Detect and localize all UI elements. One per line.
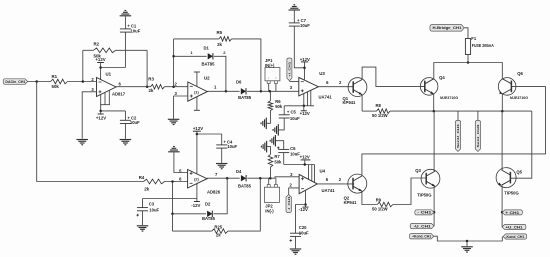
wire R3 to U2 pin2 (165, 86, 188, 88)
svg-text:DACin_CH1: DACin_CH1 (5, 80, 25, 84)
wire R2 left riser (82, 50, 84, 81)
port -U_CH1 left (410, 223, 434, 228)
svg-text:50k: 50k (274, 159, 282, 164)
ground below C3 (137, 225, 149, 227)
wire port to fuse (464, 28, 468, 39)
svg-text:TIP50G: TIP50G (417, 193, 431, 198)
port DACin_CH1 (3, 79, 28, 85)
wire Kond to ground rail (434, 236, 503, 241)
capacitor C6 (275, 141, 283, 150)
port SenU_CH1 vertical (457, 111, 459, 120)
resistor R8 (377, 109, 391, 114)
svg-text:AD826: AD826 (207, 189, 221, 194)
svg-text:(1): (1) (194, 90, 199, 94)
svg-text:2k: 2k (216, 233, 221, 238)
svg-text:R3: R3 (148, 77, 154, 82)
wire riser to Q5 base (510, 111, 531, 178)
svg-text:SenU_CH1: SenU_CH1 (456, 123, 460, 148)
wire minus bus U2 (173, 39, 175, 87)
svg-text:+12V: +12V (300, 155, 310, 160)
resistor R4 (144, 179, 165, 184)
resistor R6 (269, 91, 271, 101)
wire D2 to output node (213, 178, 227, 214)
svg-text:R7: R7 (274, 154, 280, 159)
wire Q6 emitter to rail (501, 94, 503, 111)
wire R7 to ground (267, 147, 271, 155)
wire R6 to ground (266, 111, 270, 124)
svg-text:-I_CH1: -I_CH1 (287, 196, 291, 210)
diode D4 BAT85 (241, 175, 246, 181)
connector JP2 IN(-) (264, 187, 279, 202)
op-amp U2B AD826 section 2 (188, 170, 207, 189)
capacitor C4 (221, 134, 223, 145)
wire emitter rail left (362, 110, 376, 112)
svg-text:R5: R5 (217, 30, 223, 35)
transistor Q1 KP941 (348, 78, 367, 97)
connector JP1 IN(+) (265, 68, 280, 81)
svg-text:IN(+): IN(+) (265, 63, 275, 68)
ground U2 pin3 (168, 118, 180, 120)
ground left of C6 (274, 135, 276, 147)
capacitor C7 (293, 11, 295, 23)
svg-text:-U_CH1: -U_CH1 (414, 224, 431, 228)
wire Q4 emitter to rail (433, 94, 435, 111)
svg-text:BAT85: BAT85 (238, 95, 252, 100)
resistor R2 (83, 49, 94, 51)
resistor R3 (151, 84, 165, 89)
ground below C2 (120, 139, 131, 141)
wire R5 to output node (232, 39, 261, 91)
power stub U2 bottom (196, 97, 198, 111)
svg-text:10uF: 10uF (299, 231, 309, 236)
svg-text:+Kond_CH1: +Kond_CH1 (412, 235, 431, 239)
wire Q3 emitter down (433, 186, 435, 226)
diode D6 BAT85 (241, 88, 246, 94)
wire Q5 emitter down (501, 185, 503, 227)
wire JP1 pins down (268, 84, 270, 92)
resistor R7 (270, 167, 272, 178)
power pins U3 bottom (303, 94, 305, 106)
ground below C4 (216, 163, 228, 165)
ground U1 pin3 (76, 139, 88, 141)
svg-text:Q6: Q6 (517, 71, 523, 76)
power stub U4 bottom -12V (305, 190, 307, 205)
capacitor C5 (283, 106, 285, 115)
svg-text:+ C5: + C5 (287, 109, 297, 114)
svg-text:-Kond_CH1: -Kond_CH1 (505, 235, 524, 239)
resistor R25 (172, 214, 174, 231)
transistor Q2 KP941 (348, 174, 367, 193)
ground left of R7 (266, 141, 268, 153)
wire Q5 collector up to rail (501, 111, 503, 170)
port H-Bridge_CH1 (430, 25, 464, 32)
op-amp U4 UA741 (299, 174, 317, 193)
svg-text:SenI_CH1: SenI_CH1 (476, 124, 480, 148)
port -I_CH1 vertical (286, 195, 291, 213)
svg-text:+ CH1: + CH1 (505, 211, 519, 215)
port +Kond_CH1 left (409, 234, 433, 239)
wire to C5 (284, 105, 304, 107)
svg-text:IN(-): IN(-) (265, 208, 274, 213)
svg-text:U2: U2 (204, 76, 210, 81)
wire minus node down (172, 182, 174, 214)
port -_CH1 left (415, 210, 434, 215)
svg-text:+12V: +12V (95, 57, 105, 62)
svg-text:R9: R9 (376, 198, 382, 203)
svg-text:BAT85: BAT85 (202, 216, 216, 221)
svg-text:50 1/2W: 50 1/2W (372, 207, 388, 212)
wire D1 to output row (214, 56, 226, 91)
port +U_CH1 right (502, 224, 526, 229)
node A junction (35, 80, 38, 83)
port SenI_CH1 vertical (477, 111, 479, 120)
svg-text:R4: R4 (139, 175, 145, 180)
svg-text:10uF: 10uF (300, 23, 310, 28)
svg-text:H-Bridge_CH1: H-Bridge_CH1 (433, 26, 462, 30)
wire DACin to R1 (28, 81, 51, 83)
svg-text:2k: 2k (149, 88, 154, 93)
wire node A to R4 (37, 82, 144, 182)
svg-text:D4: D4 (236, 169, 242, 174)
svg-text:AD817: AD817 (112, 92, 126, 97)
wire R2 to output riser (116, 49, 148, 51)
svg-text:50k: 50k (52, 84, 60, 89)
wire JP2 pins up (268, 178, 270, 184)
op-amp U1 AD817 (97, 78, 117, 97)
svg-text:-12V: -12V (191, 203, 200, 208)
svg-text:R1: R1 (52, 74, 58, 79)
svg-text:BAT85: BAT85 (238, 184, 252, 189)
wire supply node to Q4 Q6 collectors (467, 61, 470, 64)
svg-text:U1: U1 (106, 72, 112, 77)
svg-text:10uF: 10uF (131, 28, 141, 33)
wire U2B pin5 to ground (174, 153, 188, 173)
svg-text:MJE3710G: MJE3710G (440, 95, 458, 100)
svg-text:TIP50G: TIP50G (504, 190, 518, 195)
wire U2 output (207, 90, 239, 92)
svg-text:MJE3710G: MJE3710G (510, 95, 528, 100)
wire rail to Q5 base riser (390, 110, 532, 112)
transistor Q5 TIP50G (496, 168, 516, 188)
wire Q6 base to riser (511, 85, 545, 87)
power +12V U1 pin7 (100, 68, 102, 80)
port -Kond_CH1 right (503, 234, 527, 239)
resistor R9 (377, 202, 393, 207)
ground below C20 (290, 248, 302, 250)
wire R1 to U1 pin2 (68, 81, 97, 83)
svg-text:Q3: Q3 (415, 168, 421, 173)
svg-text:D2: D2 (205, 201, 211, 206)
svg-text:UA741: UA741 (322, 188, 336, 193)
wire C7 to U3 pin7 (294, 26, 304, 79)
svg-text:50k: 50k (275, 104, 283, 109)
transistor Q4 MJE3710G (420, 78, 438, 96)
svg-text:(2): (2) (194, 178, 199, 182)
op-amp U3 UA741 (299, 77, 319, 96)
wire D4 to U4 pin3 (247, 177, 299, 178)
wire C5 to ground (278, 118, 284, 130)
svg-text:R8: R8 (376, 103, 382, 108)
wire U2B output (207, 177, 240, 179)
svg-text:C20: C20 (299, 225, 307, 230)
svg-text:BAT85: BAT85 (202, 61, 216, 66)
svg-text:+U_CH1: +U_CH1 (506, 225, 523, 229)
svg-text:C6: C6 (290, 146, 296, 151)
wire Q1 emitter to rail (361, 95, 363, 111)
capacitor C3 (142, 199, 144, 208)
wire +12V to C4 (197, 133, 222, 135)
svg-text:10uF: 10uF (227, 144, 237, 149)
wire Q2 collector riser (362, 86, 546, 176)
ground above U2B pin5 (168, 151, 180, 153)
ground bottom rail (466, 241, 468, 246)
diode D2 BAT85 (173, 213, 207, 215)
wire port to U3 pin2 (289, 80, 298, 82)
svg-text:10uF: 10uF (149, 208, 159, 213)
wire -12V to C3 (143, 198, 197, 200)
port + CH1 right (502, 210, 522, 215)
capacitor C20 (290, 232, 301, 234)
power riser U2B +12V (196, 134, 198, 174)
wire Q1 collector to Q4 base (362, 67, 425, 86)
wire U2 pin3 ground (174, 96, 188, 119)
svg-text:2k: 2k (217, 42, 222, 47)
fuse F1 FUSE 200mA (467, 39, 469, 63)
capacitor C2 (124, 111, 126, 120)
svg-text:D6: D6 (236, 80, 242, 85)
op-amp U2 AD826 section 1 (188, 82, 208, 101)
wire R9 to Q3 base (393, 178, 427, 205)
wire D6 to U3 pin3 (247, 90, 299, 92)
wire U3 output to Q1 base (318, 86, 353, 88)
svg-text:Q4: Q4 (439, 75, 445, 80)
resistor R1 (51, 79, 68, 84)
wire Q3 collector up to rail (433, 111, 435, 171)
diode D1 BAT85 (174, 55, 207, 57)
svg-text:50 1/2W: 50 1/2W (372, 113, 388, 118)
ground left of R6 (265, 118, 267, 130)
wire +12V to C1 (101, 67, 126, 69)
wire port to U4 pin2 (289, 188, 299, 195)
svg-text:+I_CH1: +I_CH1 (288, 61, 292, 76)
ground above C7 (289, 9, 301, 11)
power U1 bottom pins (100, 95, 102, 111)
wire to C2 (101, 110, 126, 112)
svg-text:U4: U4 (320, 168, 326, 173)
svg-text:+12V: +12V (96, 115, 106, 120)
svg-text:+12V: +12V (300, 111, 310, 116)
ground left of C5 (277, 124, 279, 135)
svg-text:2k: 2k (144, 187, 149, 192)
wire R4 to pin6 of U2B (165, 181, 188, 183)
svg-text:R2: R2 (94, 42, 100, 47)
svg-text:KP941: KP941 (344, 200, 357, 205)
svg-text:10uF: 10uF (130, 120, 140, 125)
capacitor C1 (124, 32, 126, 67)
svg-text:10uF: 10uF (290, 116, 300, 121)
resistor R5 (174, 38, 219, 40)
wire U1 output (116, 86, 151, 88)
wire U4 output to Q2 base (317, 183, 354, 185)
transistor Q3 TIP50G (421, 169, 440, 188)
svg-text:+12V: +12V (300, 57, 310, 62)
svg-text:KP941: KP941 (343, 100, 356, 105)
svg-text:C3: C3 (149, 202, 155, 207)
wire +12V line U4 (284, 164, 315, 166)
wire Q2 emitter to R9 (362, 191, 377, 204)
wire -12V to C20 (296, 205, 306, 234)
wire U1 pin3 to ground (82, 92, 96, 139)
transistor Q6 MJE3710G (498, 78, 516, 96)
svg-text:-12V: -12V (299, 207, 308, 212)
svg-text:+12V: +12V (193, 126, 203, 131)
ground above C1 (120, 15, 131, 17)
svg-text:R25: R25 (214, 225, 222, 230)
wire R25 to rectified node (228, 178, 260, 231)
svg-text:- CH1: - CH1 (417, 211, 431, 215)
svg-text:Q5: Q5 (516, 170, 522, 175)
svg-text:UA741: UA741 (319, 95, 333, 100)
svg-text:FUSE 200mA: FUSE 200mA (472, 43, 494, 48)
power pins U4 top (308, 165, 310, 180)
port +I_CH1 vertical (287, 58, 292, 81)
power stub U2 top (196, 72, 198, 87)
svg-text:F1: F1 (471, 36, 477, 41)
svg-text:U3: U3 (319, 71, 325, 76)
power stub U2B bottom -12V (196, 183, 198, 201)
svg-text:D1: D1 (204, 45, 210, 50)
